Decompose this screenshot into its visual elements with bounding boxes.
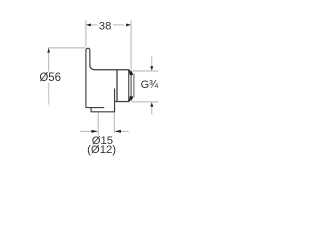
wire: extension line diameter 56 top xyxy=(48,47,85,49)
wire: flange face outer line xyxy=(128,70,130,102)
arrowhead diameter 56 up xyxy=(47,48,50,53)
arrowhead 38 right xyxy=(126,23,131,26)
wire: extension line 38 left xyxy=(85,20,87,47)
wire: flange face inner line xyxy=(130,70,132,101)
chamfer bottom wedge xyxy=(129,96,133,100)
wire: body outline - wall tab and top edge xyxy=(86,48,129,108)
chamfer top wedge xyxy=(129,71,133,75)
wire: body bottom step outline xyxy=(86,89,115,112)
wire: dimension line diameter 56 upper xyxy=(48,53,50,72)
wire: dimension line diameter 56 lower xyxy=(48,83,50,101)
wire: extension line 38 right xyxy=(130,20,132,69)
arrowhead diameter 15 left xyxy=(91,130,98,133)
arrowhead G down xyxy=(150,66,153,70)
wire: extension line diameter 15 right xyxy=(113,112,115,133)
wire: G arrow up stem xyxy=(151,107,153,115)
wire: dimension line 38 right tail xyxy=(113,24,125,26)
arrowhead diameter 56 down faint xyxy=(48,101,50,106)
arrowhead G up xyxy=(150,102,153,106)
wire: dimension tail diameter 15 left xyxy=(80,130,92,132)
wire: G arrow down stem xyxy=(151,57,153,67)
wire: threaded stub end face xyxy=(133,74,135,98)
arrowhead 38 left xyxy=(86,23,91,26)
svg-text:Ø56: Ø56 xyxy=(39,72,61,84)
arrowhead diameter 15 right xyxy=(114,130,121,133)
wire: extension line G thread top xyxy=(133,70,159,72)
svg-text:38: 38 xyxy=(99,21,112,33)
wire: cylinder bottom edge xyxy=(115,101,129,103)
svg-text:G: G xyxy=(141,79,150,91)
svg-text:¾: ¾ xyxy=(149,79,159,91)
wire: dimension line 38 left tail xyxy=(91,24,98,26)
svg-text:(Ø12): (Ø12) xyxy=(87,144,116,156)
wire: dimension tail diameter 15 right xyxy=(118,130,129,132)
wire: extension line G thread bottom xyxy=(132,101,159,103)
wire: extension line diameter 15 left xyxy=(97,112,99,135)
wire: cylinder left edge xyxy=(116,70,118,102)
